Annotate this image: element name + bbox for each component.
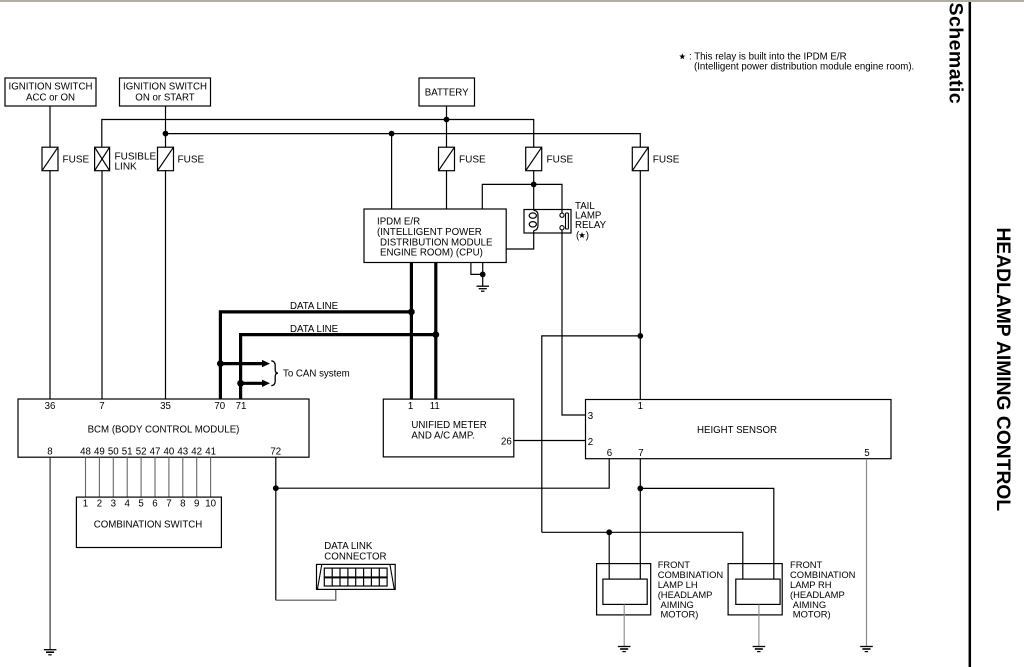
svg-text:FUSE: FUSE bbox=[63, 154, 90, 165]
wire: fuse2 to relay coil bbox=[533, 171, 535, 211]
svg-text:5: 5 bbox=[864, 448, 869, 459]
svg-text:HEIGHT SENSOR: HEIGHT SENSOR bbox=[697, 425, 777, 436]
ground: BCM 8 bbox=[44, 650, 57, 655]
svg-text:8: 8 bbox=[180, 498, 185, 509]
wires: BCM to combination switch x10 bbox=[86, 457, 211, 497]
brace bbox=[271, 361, 278, 386]
label: lamp RH bbox=[790, 559, 855, 620]
svg-text:FUSE: FUSE bbox=[178, 154, 205, 165]
svg-text:AND A/C AMP.: AND A/C AMP. bbox=[411, 430, 474, 441]
IPDM E/R box bbox=[364, 209, 506, 263]
wire: fuse to BCM pin 35 bbox=[165, 171, 167, 399]
wire: height sensor 5 to ground bbox=[866, 459, 868, 647]
wire: pin7 branch to lamp RH bbox=[640, 488, 774, 579]
node: height sensor pin1 branch junction bbox=[637, 333, 643, 339]
wire: 72 to height sensor pin 6 bbox=[276, 459, 609, 489]
wire: height sensor 7 down to lamp LH bbox=[639, 459, 641, 579]
svg-text:LINK: LINK bbox=[115, 161, 138, 172]
wire: branch to lamps rail bbox=[542, 336, 641, 532]
battery box bbox=[419, 78, 475, 106]
svg-text:Schematic: Schematic bbox=[945, 3, 967, 105]
wire: battery down to fuse 1 bbox=[446, 106, 448, 147]
svg-text:51: 51 bbox=[122, 447, 133, 458]
svg-text:36: 36 bbox=[45, 401, 56, 412]
svg-text:2: 2 bbox=[97, 498, 102, 509]
svg-text:6: 6 bbox=[152, 498, 157, 509]
wire: lamp RH to ground bbox=[758, 604, 760, 646]
ground: lamp LH bbox=[618, 647, 631, 652]
wire: DATA LINE 2 thick bbox=[241, 335, 436, 399]
svg-text:COMBINATION SWITCH: COMBINATION SWITCH bbox=[94, 520, 203, 531]
svg-text:DATA LINE: DATA LINE bbox=[290, 324, 339, 335]
svg-text:BCM (BODY CONTROL MODULE): BCM (BODY CONTROL MODULE) bbox=[88, 424, 240, 435]
svg-text:11: 11 bbox=[430, 401, 440, 412]
svg-text:10: 10 bbox=[205, 498, 216, 509]
svg-text:HEADLAMP AIMING CONTROL: HEADLAMP AIMING CONTROL bbox=[992, 228, 1013, 512]
wire: relay contact to height sensor pin 3 bbox=[562, 230, 586, 415]
svg-text:71: 71 bbox=[236, 401, 247, 412]
svg-text:52: 52 bbox=[136, 447, 147, 458]
svg-text:7: 7 bbox=[638, 448, 643, 459]
tail lamp relay bbox=[524, 210, 571, 234]
unified meter box bbox=[383, 399, 514, 457]
svg-text:70: 70 bbox=[214, 401, 225, 412]
combination switch box bbox=[76, 497, 221, 547]
label: data link connector bbox=[324, 541, 386, 562]
wire: relay rail left to IPDM pin bbox=[482, 184, 533, 209]
svg-text:To CAN system: To CAN system bbox=[283, 369, 350, 380]
svg-text:3: 3 bbox=[111, 498, 116, 509]
svg-text:ACC or ON: ACC or ON bbox=[26, 92, 75, 103]
svg-text:IGNITION SWITCH: IGNITION SWITCH bbox=[123, 82, 207, 93]
arrow: to CAN 1 bbox=[220, 360, 270, 367]
wire: CAN-H thick from IPDM to unified meter pin 1 bbox=[410, 263, 413, 400]
node: data line 1 junction bbox=[408, 309, 415, 316]
svg-text:9: 9 bbox=[194, 498, 199, 509]
wire: unified meter 26 to height sensor pin 2 bbox=[514, 440, 586, 442]
svg-text:3: 3 bbox=[588, 411, 593, 422]
wire: fuse3 to height sensor pin 1 bbox=[639, 171, 641, 400]
svg-text:35: 35 bbox=[160, 401, 171, 412]
node: rail2 IPDM junction bbox=[389, 131, 395, 137]
wire: 72 to data link connector bbox=[276, 589, 336, 600]
height sensor box bbox=[586, 400, 892, 459]
wire: BCM 72 down bbox=[275, 457, 277, 600]
wire: IGN ON/START down bbox=[165, 106, 167, 147]
wire: fuse to BCM pin 36 bbox=[49, 171, 51, 399]
wire: IGN ACC to fuse bbox=[49, 106, 51, 147]
data link connector bbox=[317, 564, 396, 589]
wire: lamp LH to ground bbox=[623, 604, 625, 646]
svg-text:MOTOR): MOTOR) bbox=[793, 609, 831, 620]
svg-text:49: 49 bbox=[94, 447, 105, 458]
svg-text:ENGINE ROOM) (CPU): ENGINE ROOM) (CPU) bbox=[380, 248, 483, 259]
node: ground junction bbox=[480, 272, 486, 278]
svg-text:BATTERY: BATTERY bbox=[425, 88, 469, 99]
svg-text:72: 72 bbox=[270, 447, 281, 458]
ground: lamp RH bbox=[753, 647, 766, 652]
relay label bbox=[575, 201, 607, 242]
svg-text:(Intelligent power distributio: (Intelligent power distribution module e… bbox=[694, 62, 914, 73]
node: relay rail junction bbox=[531, 182, 537, 188]
svg-text:): ) bbox=[586, 231, 589, 242]
wire: rail 2 bbox=[166, 134, 641, 147]
svg-text:FUSE: FUSE bbox=[459, 154, 486, 165]
wire: rail to lamp LH bbox=[608, 532, 610, 579]
BCM box bbox=[18, 399, 309, 457]
wire: relay coil bottom to IPDM right bbox=[506, 231, 534, 250]
svg-text:1: 1 bbox=[83, 498, 88, 509]
fusible link FL bbox=[95, 147, 157, 172]
svg-text:FUSE: FUSE bbox=[653, 154, 680, 165]
svg-text:4: 4 bbox=[125, 498, 131, 509]
svg-text:2: 2 bbox=[588, 437, 593, 448]
svg-text:MOTOR): MOTOR) bbox=[661, 609, 699, 620]
svg-text:ON or START: ON or START bbox=[135, 92, 194, 103]
node: data line 2 junction bbox=[432, 331, 439, 338]
wire: BCM 8 to ground bbox=[49, 457, 51, 650]
wire: fusible link to BCM pin 7 bbox=[101, 171, 103, 399]
fuse F2 bbox=[526, 147, 574, 171]
svg-text:7: 7 bbox=[99, 401, 104, 412]
svg-text:7: 7 bbox=[166, 498, 171, 509]
fuse F-START bbox=[158, 147, 205, 171]
wire: relay rail right to contact bbox=[534, 184, 562, 213]
node: CAN arrow junction 1 bbox=[217, 360, 224, 367]
wire: DATA LINE 1 thick bbox=[220, 312, 411, 399]
sidebar rule bbox=[969, 2, 972, 667]
ignition switch ACC box bbox=[5, 78, 96, 106]
svg-text:43: 43 bbox=[177, 447, 188, 458]
node: CAN arrow junction 2 bbox=[237, 380, 244, 387]
svg-text:8: 8 bbox=[47, 447, 52, 458]
front combination lamp RH bbox=[728, 564, 782, 615]
wire: CAN-L thick from IPDM to unified meter pin 11 bbox=[434, 263, 437, 400]
ignition switch ON/START box bbox=[120, 78, 211, 106]
svg-text:FUSE: FUSE bbox=[547, 154, 574, 165]
svg-text:1: 1 bbox=[638, 401, 643, 412]
page top border bbox=[0, 0, 1024, 2]
svg-text:CONNECTOR: CONNECTOR bbox=[324, 551, 386, 562]
node: rail2 start junction bbox=[163, 131, 169, 137]
svg-text:41: 41 bbox=[205, 447, 216, 458]
svg-text:DATA LINE: DATA LINE bbox=[290, 301, 339, 312]
fuse F3 bbox=[632, 147, 680, 171]
node: lamp rail junction bbox=[606, 529, 612, 535]
svg-text:1: 1 bbox=[408, 401, 413, 412]
node: pin7 branch junction bbox=[637, 486, 643, 492]
ground: height sensor 5 bbox=[860, 647, 873, 652]
svg-text:47: 47 bbox=[150, 447, 161, 458]
wire: IPDM ground pin straight bbox=[482, 263, 484, 287]
note star symbol bbox=[679, 53, 685, 59]
svg-text:48: 48 bbox=[80, 447, 91, 458]
svg-text:5: 5 bbox=[138, 498, 143, 509]
ground: IPDM bbox=[477, 286, 490, 291]
wire: fuse1 to IPDM bbox=[446, 171, 448, 209]
svg-text:RELAY: RELAY bbox=[575, 220, 607, 231]
svg-text:IGNITION SWITCH: IGNITION SWITCH bbox=[9, 82, 93, 93]
svg-text:42: 42 bbox=[191, 447, 202, 458]
svg-text:40: 40 bbox=[164, 447, 175, 458]
arrow: to CAN 2 bbox=[241, 380, 270, 387]
wire: rail2 to IPDM top bbox=[391, 134, 393, 209]
wire: lamp feed rail bbox=[542, 532, 743, 579]
fuse F-ACC bbox=[42, 147, 90, 171]
fuse F1 (battery) bbox=[439, 147, 487, 171]
front combination lamp LH bbox=[597, 564, 651, 615]
wire: battery rail 1 bbox=[102, 120, 534, 148]
node: 72 junction bbox=[273, 485, 279, 491]
svg-text:26: 26 bbox=[501, 436, 512, 447]
wire: IPDM ground pin jog bbox=[471, 263, 483, 275]
svg-text:50: 50 bbox=[108, 447, 119, 458]
label: lamp LH bbox=[658, 559, 723, 620]
node: battery junction on rail 1 bbox=[444, 117, 450, 123]
svg-text:6: 6 bbox=[607, 448, 612, 459]
